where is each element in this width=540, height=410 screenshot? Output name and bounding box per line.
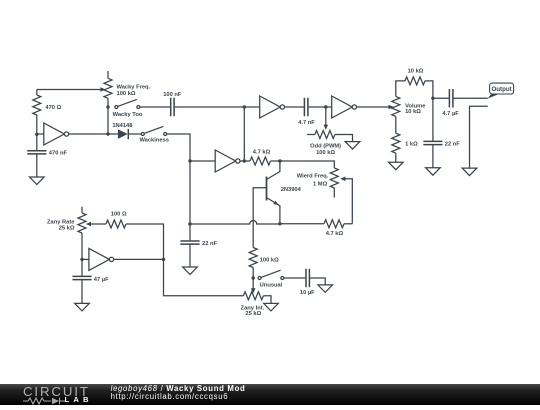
label R7 name — [405, 103, 425, 109]
svg-text:10 µF: 10 µF — [300, 290, 315, 296]
svg-text:25 kΩ: 25 kΩ — [245, 311, 261, 317]
resistor R10 100 kΩ — [249, 248, 257, 279]
node Output flag — [488, 83, 514, 99]
label R11 value — [245, 311, 261, 317]
ground G6 — [462, 168, 477, 176]
wire wierd wiper — [340, 177, 352, 224]
svg-text:100 nF: 100 nF — [163, 92, 182, 98]
label R2 value — [45, 105, 61, 111]
node junction diode row — [106, 132, 109, 135]
svg-text:4.7 µF: 4.7 µF — [442, 111, 459, 117]
switch SW2 Wackiness — [141, 126, 166, 135]
node junction unusual — [252, 276, 255, 279]
node junction inverter2 input — [188, 159, 191, 162]
svg-text:1N4148: 1N4148 — [112, 123, 133, 129]
label R1 value — [117, 91, 136, 97]
capacitor C8 47 µF — [72, 259, 91, 303]
wire wiper row from left rail to Wacky Freq pot — [37, 87, 106, 92]
ground G5 — [426, 168, 441, 176]
svg-text:10 kΩ: 10 kΩ — [405, 109, 421, 115]
resistor R8 10 kΩ — [405, 77, 433, 98]
svg-text:100 Ω: 100 Ω — [111, 212, 127, 218]
svg-text:Odd (PWM): Odd (PWM) — [310, 143, 341, 149]
svg-text:4.7 kΩ: 4.7 kΩ — [253, 149, 271, 155]
node junction bottom-left rail — [188, 222, 191, 225]
label C8 value — [94, 277, 109, 283]
wire base — [253, 188, 266, 248]
svg-text:100 kΩ: 100 kΩ — [260, 257, 279, 263]
wire output ground L — [470, 106, 488, 168]
label R6 name — [310, 143, 341, 149]
label Q1 value — [281, 187, 302, 193]
wire pot bottom rail down to diode row — [107, 107, 109, 134]
node junction output tap — [431, 97, 434, 100]
ground G4 — [389, 162, 404, 170]
label SW3 name — [260, 283, 283, 289]
resistor R9 1 kΩ — [392, 116, 400, 162]
capacitor C2 100 nF — [171, 98, 174, 117]
node junction odd pot — [324, 105, 327, 108]
ground G7 — [318, 285, 333, 293]
ground G8 — [264, 303, 279, 311]
label C5 value — [445, 142, 461, 148]
resistor R13 100 Ω — [106, 220, 164, 259]
potentiometer R11 Zany Int. 25 kΩ — [243, 278, 271, 303]
svg-text:Wackiness: Wackiness — [139, 138, 169, 144]
switch SW1 Wacky Too — [115, 99, 140, 108]
ground G3 — [345, 142, 360, 150]
capacitor C7 10 µF — [284, 269, 325, 288]
label SW1 name — [113, 112, 143, 118]
label R9 value — [405, 141, 418, 147]
resistor R3 4.7 kΩ — [244, 157, 280, 165]
label C3 value — [202, 241, 218, 247]
label C4 value — [298, 120, 315, 126]
wire zany wiper — [86, 222, 106, 227]
svg-text:25 kΩ: 25 kΩ — [59, 225, 75, 231]
ground G1 — [30, 177, 45, 185]
wire bottom rail with hop — [190, 221, 280, 225]
svg-text:47 µF: 47 µF — [94, 277, 109, 283]
potentiometer R6 Odd (PWM) 100 kΩ — [307, 107, 352, 142]
svg-text:Wacky Too: Wacky Too — [113, 112, 143, 118]
resistor R5 4.7 kΩ bottom — [280, 220, 352, 228]
label R5 value — [326, 231, 344, 237]
svg-text:Unusual: Unusual — [260, 283, 283, 289]
label R7 value — [405, 109, 421, 115]
svg-text:2N3904: 2N3904 — [281, 187, 302, 193]
svg-text:Wacky Freq.: Wacky Freq. — [117, 85, 151, 91]
wire switch to cap — [140, 106, 170, 108]
node junction mid feedback — [243, 105, 246, 108]
node junction left rail inverter input — [35, 133, 38, 136]
svg-text:1 MΩ: 1 MΩ — [313, 181, 328, 187]
svg-text:470 Ω: 470 Ω — [45, 105, 61, 111]
node junction inverter5 input — [80, 258, 83, 261]
label D1 value — [112, 123, 133, 129]
svg-text:4.7 nF: 4.7 nF — [298, 120, 315, 126]
svg-text:100 kΩ: 100 kΩ — [117, 91, 136, 97]
wire collector junction to wierd pot — [280, 161, 334, 168]
label C7 value — [300, 290, 315, 296]
svg-text:22 nF: 22 nF — [445, 142, 461, 148]
op-amp U3 inverter 3 — [260, 96, 304, 118]
transistor Q1 2N3904 — [267, 161, 280, 224]
op-amp U4 inverter 4 — [332, 96, 394, 118]
label R8 value — [408, 69, 424, 75]
op-amp U5 inverter 5 — [82, 248, 164, 270]
label R1 name — [117, 85, 151, 91]
op-amp U2 inverter 2 — [190, 150, 244, 172]
switch SW3 Unusual — [258, 270, 284, 279]
wire zany int left — [164, 259, 244, 295]
label SW2 name — [139, 138, 169, 144]
capacitor C3 22 nF mid — [180, 224, 199, 267]
potentiometer R1 Wacky Freq 100 kΩ — [104, 71, 112, 107]
label R6 value — [316, 150, 335, 156]
node junction emitter — [278, 222, 281, 225]
svg-text:4.7 kΩ: 4.7 kΩ — [326, 231, 344, 237]
resistor R2 470 Ω — [33, 90, 41, 135]
capacitor C6 4.7 µF — [433, 89, 488, 108]
potentiometer R7 Volume 10 kΩ — [392, 81, 405, 117]
svg-text:Output: Output — [491, 86, 511, 93]
op-amp U1 inverter 1 — [37, 123, 108, 145]
wire wackiness to mid rail — [167, 134, 190, 161]
footer bar — [0, 384, 540, 405]
capacitor C4 4.7 nF — [304, 98, 308, 117]
label C2 value — [163, 92, 182, 98]
wire cap to inverter 3 input — [175, 106, 260, 108]
label R11 name — [241, 305, 265, 311]
svg-text:22 nF: 22 nF — [202, 241, 218, 247]
node junction inverter2 output — [243, 159, 246, 162]
svg-text:10 kΩ: 10 kΩ — [408, 69, 424, 75]
ground G2 — [183, 267, 198, 275]
wire feedback vertical — [243, 107, 245, 161]
svg-text:1 kΩ: 1 kΩ — [405, 141, 418, 147]
label R12 name — [47, 219, 74, 225]
wire cap to inverter 4 — [309, 106, 332, 108]
label C6 value — [442, 111, 459, 117]
svg-text:Wierd Freq.: Wierd Freq. — [297, 174, 329, 180]
capacitor C1 470 nF — [27, 134, 46, 177]
node junction collector — [278, 159, 281, 162]
capacitor C5 22 nF right — [423, 98, 442, 168]
wire mid rail down — [189, 161, 191, 224]
svg-text:100 kΩ: 100 kΩ — [316, 150, 335, 156]
label R3 value — [253, 149, 271, 155]
label R4 name — [297, 174, 329, 180]
label R10 value — [260, 257, 279, 263]
diode D1 1N4148 — [108, 129, 141, 139]
label C1 value — [49, 151, 68, 157]
potentiometer R12 Zany Rate 25 kΩ — [78, 207, 86, 260]
CircuitLab logo — [23, 384, 113, 405]
node junction pot-switch — [106, 105, 109, 108]
node junction inverter5 output — [162, 258, 165, 261]
label R13 value — [111, 212, 127, 218]
potentiometer R4 Wierd Freq 1 MΩ — [330, 168, 338, 198]
svg-text:470 nF: 470 nF — [49, 151, 68, 157]
label R4 value — [313, 181, 328, 187]
label R12 value — [59, 225, 75, 231]
ground G9 — [75, 303, 90, 311]
